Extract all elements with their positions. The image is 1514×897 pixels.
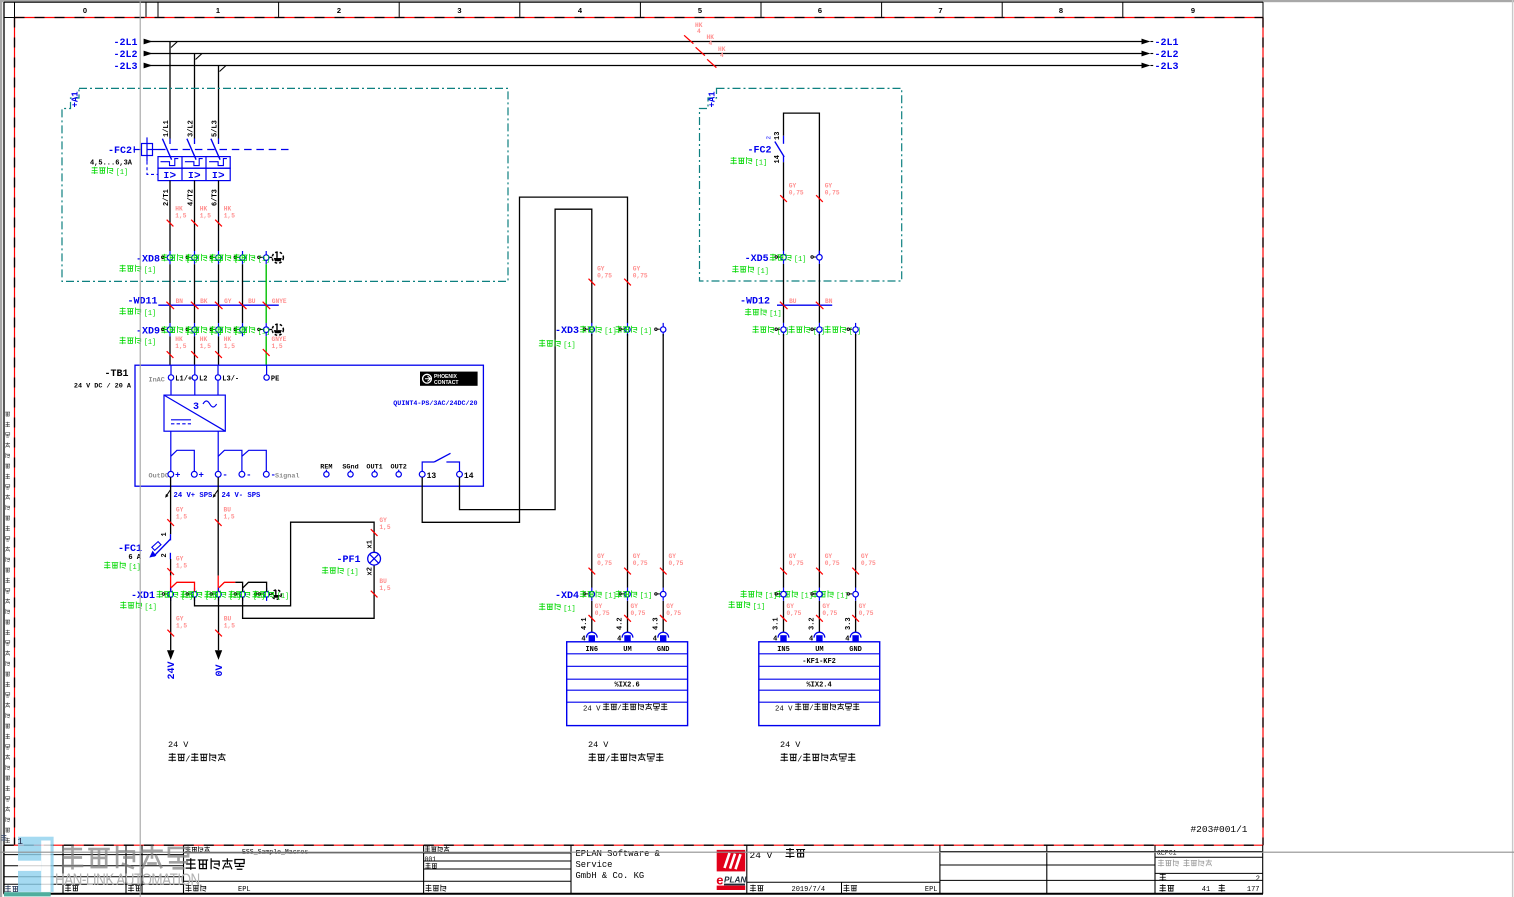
svg-text:EPLAN Software &: EPLAN Software & xyxy=(576,849,661,859)
wire FC2 pole 3 to XD8 xyxy=(218,181,220,251)
svg-text:BN: BN xyxy=(176,298,184,305)
structure box +A1 left (dash-dot) xyxy=(62,88,508,281)
title block date row xyxy=(750,885,764,892)
svg-text:+A1: +A1 xyxy=(708,91,718,108)
TB1 output terminal - xyxy=(239,471,245,477)
svg-text:-FC2: -FC2 xyxy=(747,146,771,157)
wire XD8 to XD9 xyxy=(194,264,196,323)
svg-text:1,5: 1,5 xyxy=(224,514,235,521)
source arrow -2L2 left xyxy=(144,51,153,57)
frame top border xyxy=(4,1,1263,3)
wire XD8 to XD9 xyxy=(169,264,171,323)
svg-text:GNYE: GNYE xyxy=(272,336,287,343)
wire XD3 to XD4 xyxy=(591,334,593,588)
title block label xiugai (modify) xyxy=(5,885,19,892)
svg-text:-TB1: -TB1 xyxy=(104,369,128,380)
svg-text:13: 13 xyxy=(774,132,782,140)
svg-text:GY: GY xyxy=(789,553,797,560)
svg-text:14: 14 xyxy=(464,472,474,481)
right terminal row2 terminal 1 xyxy=(775,328,780,330)
svg-text:I: I xyxy=(212,170,218,181)
svg-text:-XD9: -XD9 xyxy=(136,327,160,338)
svg-text:[1]: [1] xyxy=(116,169,128,177)
PLC connection point GND xyxy=(658,632,669,637)
title block label drawing number xyxy=(425,863,437,869)
svg-text:IN5: IN5 xyxy=(777,646,790,654)
right terminal row594 green labels xyxy=(740,590,762,597)
terminal XD9:4 xyxy=(234,328,239,330)
svg-text:GY: GY xyxy=(633,266,641,273)
svg-text:EPL: EPL xyxy=(238,886,251,894)
wire XD5 to WD12 xyxy=(783,264,785,323)
svg-text:2: 2 xyxy=(766,136,773,140)
svg-text:[1]: [1] xyxy=(640,593,652,601)
breaker FC2 thermal release symbol pole 1 xyxy=(161,159,179,166)
svg-text:GND: GND xyxy=(657,646,670,654)
breaker FC2 mech dashed link xyxy=(147,162,158,175)
svg-text:-WD12: -WD12 xyxy=(740,296,770,307)
wire 24V+ SPS from TB1 xyxy=(170,477,172,534)
svg-text:GY: GY xyxy=(597,266,605,273)
svg-text:HK: HK xyxy=(175,336,183,343)
svg-text:[1]: [1] xyxy=(753,603,765,611)
watermark teal strip xyxy=(4,892,51,896)
breaker FC2 green attribute label xyxy=(91,167,113,174)
svg-text:24 V: 24 V xyxy=(168,740,189,750)
breaker FC2 thermal release symbol pole 3 xyxy=(209,159,227,166)
breaker FC2 contact blade pole 2 xyxy=(187,139,196,160)
window chrome left bar xyxy=(0,0,2,897)
svg-text:L3/-: L3/- xyxy=(222,376,239,384)
TB1 input terminal L1/+ xyxy=(170,365,172,375)
svg-text:0,75: 0,75 xyxy=(789,560,804,567)
svg-text:1,5: 1,5 xyxy=(175,343,186,350)
TB1 relay contact 13-14 xyxy=(422,462,434,471)
svg-text:GY: GY xyxy=(861,553,869,560)
terminal XD4:1 xyxy=(583,593,588,595)
svg-text:BU: BU xyxy=(248,298,256,305)
TB1 output wire + group xyxy=(170,431,172,471)
title block label riqi (date) xyxy=(65,885,79,892)
cable WD11 green attribute label xyxy=(119,308,141,315)
wire bus -2L1 xyxy=(147,41,1142,43)
svg-text:+A1: +A1 xyxy=(71,91,81,108)
svg-text:/: / xyxy=(185,754,190,764)
wire right to PLC input xyxy=(855,601,857,632)
title block horizontal lines right cells xyxy=(940,851,1263,853)
terminal XD3:3 xyxy=(655,328,660,330)
frame outer left border xyxy=(3,2,5,894)
svg-text:+: + xyxy=(175,471,180,481)
title block page field xyxy=(1159,874,1166,882)
svg-text:GND: GND xyxy=(849,646,862,654)
wire FC2 aux to XD5 xyxy=(783,162,785,251)
svg-text:0,75: 0,75 xyxy=(669,560,684,567)
svg-text:4,5...6,3A: 4,5...6,3A xyxy=(90,159,133,167)
terminal XD4:2 xyxy=(619,593,624,595)
breaker FC2 contact blade pole 1 xyxy=(162,139,171,160)
svg-text:L1/+: L1/+ xyxy=(175,376,192,384)
svg-text:GY: GY xyxy=(176,507,184,514)
PLC card box (left) xyxy=(567,642,688,726)
svg-text:1/L1: 1/L1 xyxy=(163,120,171,137)
svg-text:1,5: 1,5 xyxy=(200,213,211,220)
PLC connection point IN6 xyxy=(586,632,597,637)
svg-text:HAN-LINK AUTOMATION: HAN-LINK AUTOMATION xyxy=(55,871,200,890)
right terminal row594 green label below xyxy=(728,601,750,608)
terminal XD1:2 xyxy=(186,593,191,595)
TB1 output terminal + xyxy=(191,471,197,477)
svg-text:0,75: 0,75 xyxy=(633,560,648,567)
svg-text:PLAN: PLAN xyxy=(724,876,747,885)
terminal strip XD4 green attribute label below xyxy=(539,603,561,610)
terminal strip XD9 green attribute labels (overlapping) xyxy=(161,326,183,333)
svg-text:HK: HK xyxy=(200,336,208,343)
svg-text:OutDC: OutDC xyxy=(149,472,169,480)
svg-text:41: 41 xyxy=(1202,886,1210,894)
wire FC2 pole 1 to XD8 xyxy=(169,181,171,251)
wire 24V- SPS from TB1 xyxy=(217,477,219,575)
svg-text:[1]: [1] xyxy=(563,342,575,350)
svg-text:[1]: [1] xyxy=(604,593,616,601)
svg-text:GY: GY xyxy=(176,556,184,563)
svg-text:-WD11: -WD11 xyxy=(127,296,157,307)
source arrow -2L3 left xyxy=(144,63,153,69)
svg-text:-XD8: -XD8 xyxy=(136,254,160,265)
svg-text:-2L2: -2L2 xyxy=(113,50,137,61)
wire XD8 to XD9 xyxy=(242,264,244,323)
svg-text:0,75: 0,75 xyxy=(861,560,876,567)
aux contact -FC2 (13/14) xyxy=(783,136,785,144)
svg-text:8: 8 xyxy=(1059,6,1063,15)
wire TB1:14 to XD3:1 (loop) xyxy=(460,209,592,509)
wire right to PLC input xyxy=(818,601,820,632)
svg-text:QUINT4-PS/3AC/24DC/20: QUINT4-PS/3AC/24DC/20 xyxy=(393,400,477,408)
power supply -TB1 outline xyxy=(135,365,483,486)
svg-text:-2L1: -2L1 xyxy=(1155,38,1179,49)
svg-text:/: / xyxy=(797,754,802,764)
svg-text:&EPC1: &EPC1 xyxy=(1157,850,1177,857)
cable WD12 green attribute label xyxy=(745,308,767,315)
wire TB1:13 to XD3:2 (loop) xyxy=(422,197,627,522)
svg-text:-KF1-KF2: -KF1-KF2 xyxy=(802,658,836,666)
svg-text:1,5: 1,5 xyxy=(176,563,187,570)
svg-text:I: I xyxy=(164,170,170,181)
svg-text:1,5: 1,5 xyxy=(200,343,211,350)
window pane split line vertical xyxy=(139,0,141,897)
svg-text:1,5: 1,5 xyxy=(224,213,235,220)
svg-text:3/L2: 3/L2 xyxy=(187,120,195,137)
svg-text:3: 3 xyxy=(457,6,461,15)
svg-text:/: / xyxy=(809,705,813,713)
svg-text:[1]: [1] xyxy=(277,593,289,601)
svg-text:0,75: 0,75 xyxy=(859,610,874,617)
wire XD9 to TB1 L1 xyxy=(169,336,171,365)
plot frame red/black dashed border right xyxy=(1262,18,1264,846)
svg-text:%IX2.6: %IX2.6 xyxy=(614,682,639,690)
right terminal row2 terminal 3 xyxy=(847,328,852,330)
terminal XD5:2 xyxy=(811,256,816,258)
breaker FC1 green attribute label xyxy=(104,562,126,569)
wire XD4 to PLC input xyxy=(662,601,664,632)
svg-text:-XD1: -XD1 xyxy=(131,591,155,602)
svg-text:GY: GY xyxy=(224,298,232,305)
TB1 input terminal PE xyxy=(266,365,268,375)
TB1 wire input terminal to converter xyxy=(170,380,172,395)
svg-text:[1]: [1] xyxy=(144,339,156,347)
svg-text:0: 0 xyxy=(83,6,87,15)
svg-text:4: 4 xyxy=(697,28,701,35)
svg-text:-XD5: -XD5 xyxy=(745,254,769,265)
terminal XD9:2 xyxy=(186,328,191,330)
svg-text:1: 1 xyxy=(18,837,23,847)
svg-text:GY: GY xyxy=(859,603,867,610)
svg-text:24 V+ SPS: 24 V+ SPS xyxy=(174,492,214,500)
svg-text:Signal: Signal xyxy=(275,472,299,480)
svg-text:BU: BU xyxy=(224,507,232,514)
svg-text:[1]: [1] xyxy=(144,267,156,275)
svg-text:1,5: 1,5 xyxy=(176,623,187,630)
wire bus -2L3 xyxy=(147,65,1142,67)
terminal strip XD9 green attribute label below xyxy=(119,337,141,344)
svg-text:1,5: 1,5 xyxy=(176,514,187,521)
wire bus -2L2 xyxy=(147,53,1142,55)
svg-text:0,75: 0,75 xyxy=(822,610,837,617)
svg-text:0,75: 0,75 xyxy=(595,610,610,617)
TB1 output wire - group xyxy=(217,431,219,471)
svg-text:Service: Service xyxy=(576,860,613,870)
svg-text:GY: GY xyxy=(379,517,387,524)
branch wire from -2L3 xyxy=(218,66,220,139)
title block label project name xyxy=(185,846,210,852)
terminal XD5:1 xyxy=(775,256,780,258)
title block horizontal lines middle cell xyxy=(424,852,571,854)
watermark Chinese characters HAN-LIAN-ZI-DONG-HUA xyxy=(62,846,188,870)
svg-text:[1]: [1] xyxy=(346,569,358,577)
svg-text:-2L3: -2L3 xyxy=(113,62,137,73)
title block verticals xyxy=(3,845,5,894)
TB1 wire input terminal to converter xyxy=(194,380,196,395)
svg-text:0,75: 0,75 xyxy=(597,560,612,567)
svg-text:0,75: 0,75 xyxy=(633,273,648,280)
wire right row2 down to row594 xyxy=(855,334,857,588)
svg-text:4.3: 4.3 xyxy=(652,617,660,630)
svg-text:-: - xyxy=(222,471,227,481)
wire XD1:2 to lamp PF1 (top feed) xyxy=(195,522,375,606)
vertical copyright notice text xyxy=(5,412,10,843)
svg-text:GY: GY xyxy=(176,616,184,623)
svg-text:0,75: 0,75 xyxy=(825,560,840,567)
svg-text:1,5: 1,5 xyxy=(272,343,283,350)
PLC connection point right GND xyxy=(850,632,861,637)
PLC connection point right IN5 xyxy=(778,632,789,637)
svg-text:3: 3 xyxy=(193,402,199,413)
svg-text:2019/7/4: 2019/7/4 xyxy=(792,886,826,894)
svg-text:2: 2 xyxy=(1256,876,1260,884)
svg-text:24 V: 24 V xyxy=(780,740,801,750)
wire right row2 down to row594 xyxy=(818,334,820,588)
frame header vertical x=14.5 xyxy=(14,2,16,18)
svg-text:BU: BU xyxy=(379,578,387,585)
svg-text:-2L2: -2L2 xyxy=(1155,50,1179,61)
terminal XD8:1 xyxy=(162,256,167,258)
plot frame red/black dashed border left xyxy=(14,18,16,846)
terminal strip XD8 green attribute labels (overlapping) xyxy=(161,254,183,261)
svg-text:4: 4 xyxy=(709,40,713,47)
svg-text:%IX2.4: %IX2.4 xyxy=(806,682,831,690)
svg-text:GmbH & Co. KG: GmbH & Co. KG xyxy=(576,871,645,881)
red jumper XD1:1 to XD1:2 xyxy=(171,582,194,591)
window pane split line horizontal xyxy=(0,851,1514,853)
cable WD11 line xyxy=(158,304,278,306)
right terminal row2 terminal 2 xyxy=(811,328,816,330)
svg-text:14: 14 xyxy=(774,155,782,163)
terminal XD1:5 xyxy=(258,593,263,595)
TB1 output terminal - xyxy=(215,471,221,477)
svg-text:-XD4: -XD4 xyxy=(555,591,579,602)
svg-text:9: 9 xyxy=(1191,6,1195,15)
jumper XD1:4 to XD1:5 xyxy=(243,582,267,591)
svg-text:24 V: 24 V xyxy=(775,705,793,713)
svg-text:177: 177 xyxy=(1247,886,1260,894)
svg-text:[1]: [1] xyxy=(144,310,156,318)
title block page count field xyxy=(1159,884,1174,892)
source arrow -2L1 left xyxy=(144,39,153,45)
svg-text:7: 7 xyxy=(938,6,942,15)
svg-text:[1]: [1] xyxy=(757,268,769,276)
branch wire from -2L1 xyxy=(169,42,171,139)
svg-text:[1]: [1] xyxy=(769,311,781,319)
svg-text:4: 4 xyxy=(720,52,724,59)
right terminal row594 terminal 3 xyxy=(847,593,852,595)
black jumper continuation to XD1:4 xyxy=(235,582,242,591)
svg-text:CONTACT: CONTACT xyxy=(434,380,459,386)
svg-text:UM: UM xyxy=(815,646,823,654)
breaker FC2 pole boxes magnetic row xyxy=(158,168,230,180)
title block horizontal lines project cell xyxy=(184,852,424,854)
svg-text:GY: GY xyxy=(825,183,833,190)
svg-text:GY: GY xyxy=(631,603,639,610)
svg-text:GY: GY xyxy=(633,553,641,560)
target arrow -2L1 right xyxy=(1142,39,1151,45)
breaker FC2 contact blade pole 3 xyxy=(211,139,220,160)
svg-text:InAC: InAC xyxy=(149,377,165,385)
svg-text:1,5: 1,5 xyxy=(379,585,390,592)
svg-text:[1]: [1] xyxy=(604,328,616,336)
aux contact FC2 green attribute label xyxy=(730,157,752,164)
svg-text:24 V: 24 V xyxy=(583,705,601,713)
terminal strip XD4 green attribute labels xyxy=(580,590,602,597)
terminal XD8 PE terminal (green) xyxy=(258,256,263,258)
red jumper from XD1:3 xyxy=(219,582,235,587)
svg-text:1: 1 xyxy=(161,532,169,536)
svg-text:UM: UM xyxy=(623,646,631,654)
svg-text:GY: GY xyxy=(669,553,677,560)
title block project title (Chinese) xyxy=(186,858,245,870)
svg-text:3.3: 3.3 xyxy=(845,617,853,630)
wire XD1:4 to lamp PF1 (bottom return) xyxy=(243,565,375,618)
svg-text:2: 2 xyxy=(161,553,169,557)
breaker FC2 thermal release symbol pole 2 xyxy=(185,159,203,166)
svg-text:EPL: EPL xyxy=(925,886,938,894)
svg-text:GY: GY xyxy=(825,553,833,560)
earth symbol at XD1 xyxy=(255,593,260,595)
EPLAN logo xyxy=(717,850,746,872)
svg-text:6: 6 xyxy=(818,6,822,15)
branch wire from -2L2 xyxy=(194,54,196,139)
wire XD4 to PLC input xyxy=(591,601,593,632)
cable WD12 line xyxy=(777,304,832,306)
svg-text:HK: HK xyxy=(224,336,232,343)
right terminal row594 terminal 2 xyxy=(811,593,816,595)
svg-text:24 V DC / 20 A: 24 V DC / 20 A xyxy=(74,382,132,390)
svg-text:24 V: 24 V xyxy=(588,740,609,750)
svg-text:BN: BN xyxy=(825,298,833,305)
TB1 input terminal L2 xyxy=(194,365,196,375)
svg-text:/: / xyxy=(605,754,610,764)
terminal XD1:1 xyxy=(162,593,167,595)
wire XD9 to TB1 L3 xyxy=(218,336,220,365)
svg-text:GY: GY xyxy=(595,603,603,610)
target arrow -2L2 right xyxy=(1142,51,1151,57)
terminal XD3:2 xyxy=(619,328,624,330)
svg-text:[1]: [1] xyxy=(128,564,140,572)
svg-text:5: 5 xyxy=(698,6,702,15)
wire FC1 to XD1 xyxy=(170,559,172,576)
svg-text:e: e xyxy=(716,872,723,887)
svg-text:1,5: 1,5 xyxy=(224,343,235,350)
terminal strip XD3 green attribute label below xyxy=(539,340,561,347)
svg-text:0,75: 0,75 xyxy=(597,273,612,280)
svg-text:1,5: 1,5 xyxy=(224,623,235,630)
svg-text:GNYE: GNYE xyxy=(272,298,287,305)
svg-text:GY: GY xyxy=(789,183,797,190)
svg-text:BU: BU xyxy=(224,616,232,623)
plot frame red/black dashed border bottom (title block top) xyxy=(4,844,1263,846)
svg-text:1,5: 1,5 xyxy=(379,524,390,531)
svg-text:5/L3: 5/L3 xyxy=(211,120,219,137)
title block schematic discipline (grey) xyxy=(1158,860,1179,867)
svg-text:0,75: 0,75 xyxy=(789,190,804,197)
svg-text:2: 2 xyxy=(337,6,341,15)
TB1 converter DC symbol xyxy=(171,419,191,421)
wire XD1:1 to 24V arrow xyxy=(170,597,172,650)
svg-text:0,75: 0,75 xyxy=(825,190,840,197)
indicator lamp -PF1 xyxy=(368,552,381,565)
terminal XD9 PE terminal (green) xyxy=(258,328,263,330)
svg-text:[1]: [1] xyxy=(794,256,806,264)
svg-text:GY: GY xyxy=(666,603,674,610)
TB1 wire input terminal to converter xyxy=(217,380,219,395)
wire XD3 to XD4 xyxy=(627,334,629,588)
frame header bottom narrow-cell line xyxy=(4,17,15,19)
svg-text:0,75: 0,75 xyxy=(631,610,646,617)
svg-text:I: I xyxy=(188,170,194,181)
window chrome top bar xyxy=(0,0,1514,2)
PE wire XD8 to XD9 (green) xyxy=(265,264,267,323)
right terminal strip green labels xyxy=(752,326,774,333)
frame header column dividers xyxy=(145,2,147,18)
right terminal row594 terminal 1 xyxy=(775,593,780,595)
wire (red potential) into XD1:3 xyxy=(217,576,219,592)
title block label xingming (name) xyxy=(128,885,142,892)
svg-text:-FC2: -FC2 xyxy=(108,146,132,157)
svg-text:0,75: 0,75 xyxy=(666,610,681,617)
breaker FC1 symbol xyxy=(170,534,172,540)
PE wire XD9 to TB1 (green) xyxy=(265,336,267,365)
TB1 output terminal - xyxy=(263,471,269,477)
svg-text:-: - xyxy=(246,471,251,481)
